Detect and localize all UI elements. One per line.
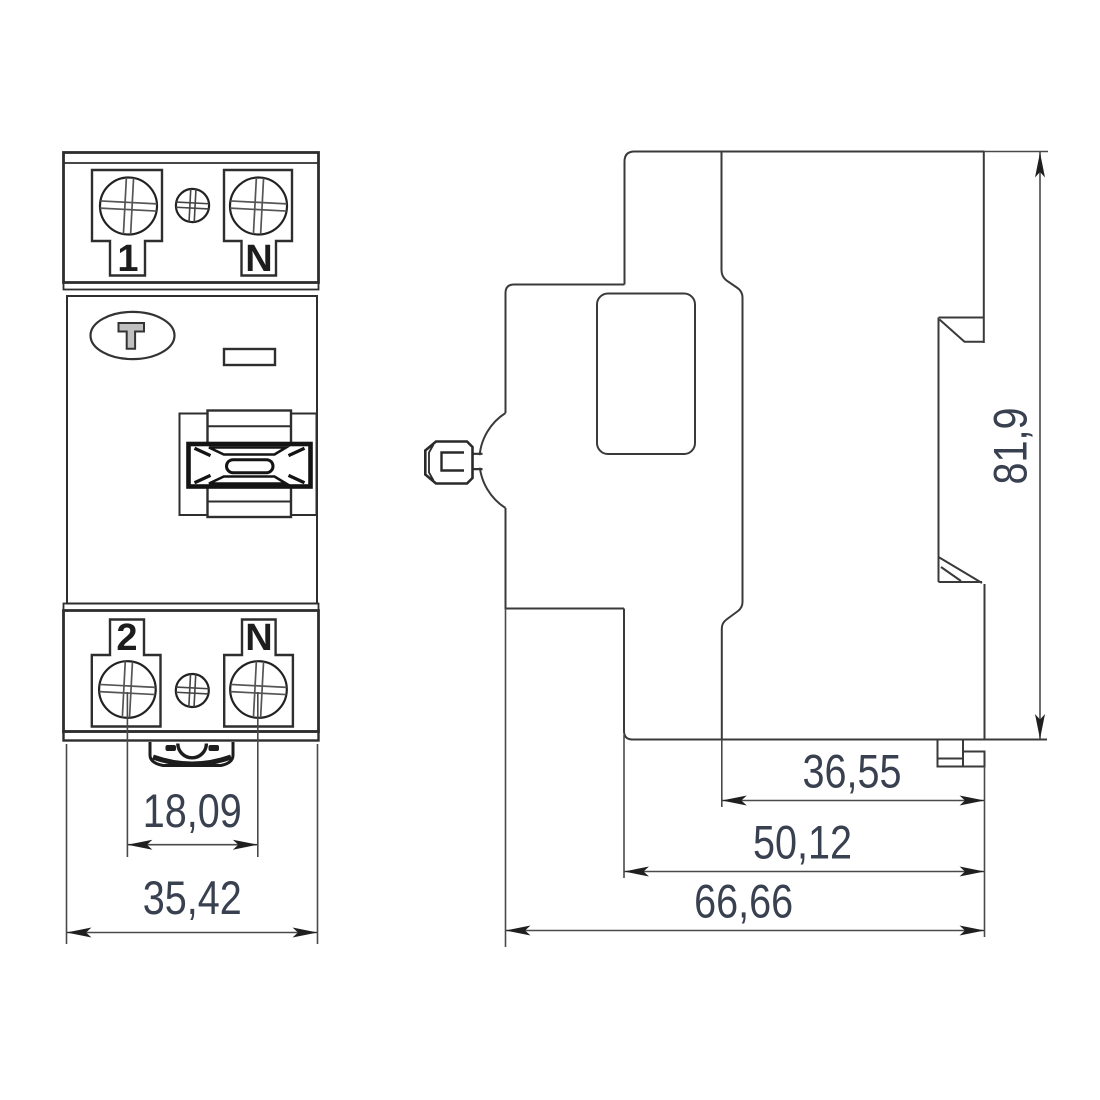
terminal 1 cavity <box>92 170 162 276</box>
ext line front-right <box>317 744 319 944</box>
side top-left step <box>625 152 635 285</box>
indicator window <box>224 349 275 365</box>
ext line front-left <box>66 744 68 944</box>
ext line screw2 <box>126 692 128 857</box>
din lower hook inner diagonal <box>941 567 961 581</box>
top block lid line <box>64 162 319 164</box>
handle center pill <box>227 460 274 473</box>
side back edge lower <box>984 584 986 740</box>
ext line 36,55 left <box>721 740 723 808</box>
svg-text:66,66: 66,66 <box>694 876 793 929</box>
arrow 36,55 right <box>960 796 985 806</box>
switch slot lower line <box>208 501 292 503</box>
test button T <box>91 312 175 359</box>
din upper hook <box>940 320 985 342</box>
bottom block top strip <box>64 604 319 611</box>
arrow 35,42 left <box>67 928 92 938</box>
din clip under front view <box>150 742 233 766</box>
top block bottom strip <box>64 283 319 290</box>
svg-text:N: N <box>245 617 272 659</box>
switch slot upper line <box>208 425 292 427</box>
screw 1 <box>99 176 159 236</box>
din clip left bar <box>166 745 177 751</box>
screw N bottom <box>229 660 288 719</box>
arrow 81,9 bottom <box>1035 714 1045 739</box>
dim line 66,66 <box>506 930 985 932</box>
toggle dome <box>479 413 505 508</box>
din clip right bar <box>209 745 220 751</box>
ext line right common <box>984 767 986 938</box>
arrowheads <box>67 153 1046 938</box>
svg-text:1: 1 <box>117 238 138 280</box>
terminal N(top) cavity <box>224 170 292 276</box>
side back edge upper <box>983 152 985 344</box>
toggle shaft <box>470 455 484 468</box>
svg-text:81,9: 81,9 <box>985 408 1038 485</box>
arrow 66,66 left <box>506 926 531 936</box>
switch handle bold frame <box>189 444 311 487</box>
dimension texts <box>143 408 1038 929</box>
svg-text:18,09: 18,09 <box>143 785 242 838</box>
arrow 36,55 left <box>722 796 747 806</box>
dim line 18,09 <box>127 844 257 846</box>
bottom terminal block outer <box>64 611 319 732</box>
ext line screwN <box>257 692 259 857</box>
SIDE VIEW <box>479 152 1047 767</box>
din foot inner line <box>938 758 964 760</box>
side inner step lower <box>722 599 743 740</box>
ext line 81,9 top <box>984 151 1048 153</box>
side top edge <box>635 151 985 153</box>
side bottom edge <box>633 739 1048 741</box>
dim line 35,42 <box>67 932 318 934</box>
toggle recess window <box>597 294 695 455</box>
toggle knob <box>425 442 472 484</box>
screw N top <box>229 176 289 236</box>
din foot right tab <box>963 752 985 767</box>
arrow 18,09 left <box>127 840 152 850</box>
screw 2 <box>98 660 157 719</box>
top terminal block outer <box>64 153 319 283</box>
DIMENSIONS <box>67 152 1049 948</box>
svg-text:36,55: 36,55 <box>803 746 902 799</box>
arrow 50,12 right <box>960 867 985 877</box>
din clip bottom thick arc <box>153 757 231 764</box>
switch slot <box>208 411 292 518</box>
terminal N(bottom) cavity <box>224 620 293 727</box>
dim line 81,9 <box>1039 152 1041 739</box>
mid body <box>67 296 317 604</box>
toggle knob facet <box>429 445 434 481</box>
din notch inner wall <box>938 318 940 583</box>
small screw top <box>175 188 210 223</box>
side front face lower <box>506 508 625 609</box>
arrow 18,09 right <box>233 840 258 850</box>
handle bottom corner ticks <box>195 475 305 482</box>
side lower step <box>624 609 633 740</box>
arrow 81,9 top <box>1035 153 1045 178</box>
dim line 36,55 <box>722 800 985 802</box>
ext line 50,12 left <box>623 735 625 878</box>
svg-text:50,12: 50,12 <box>753 817 852 870</box>
small screw bottom <box>175 673 210 708</box>
svg-text:35,42: 35,42 <box>143 872 242 925</box>
handle top trapezoid <box>209 448 286 455</box>
din foot left box <box>938 740 964 767</box>
handle top corner ticks <box>195 448 305 455</box>
terminal 2 cavity <box>92 620 161 727</box>
switch assembly outer frame <box>180 414 317 516</box>
FRONT VIEW <box>64 153 319 741</box>
din notch ceiling <box>939 317 985 319</box>
side inner step upper <box>722 152 743 599</box>
din lower hook base <box>939 581 983 583</box>
arrow 50,12 left <box>624 867 649 877</box>
handle bottom trapezoid <box>209 477 286 484</box>
toggle knob notch <box>442 453 465 471</box>
din clip half ring <box>178 744 207 758</box>
svg-text:N: N <box>245 238 272 280</box>
arrow 35,42 right <box>293 928 318 938</box>
svg-text:2: 2 <box>116 617 137 659</box>
arrow 66,66 right <box>960 926 985 936</box>
dim line 50,12 <box>624 871 985 873</box>
side mid ledge <box>506 285 625 414</box>
ext line 66,66 left <box>505 609 507 948</box>
bottom block bottom strip <box>64 732 319 741</box>
din lower hook diagonal <box>939 557 983 583</box>
